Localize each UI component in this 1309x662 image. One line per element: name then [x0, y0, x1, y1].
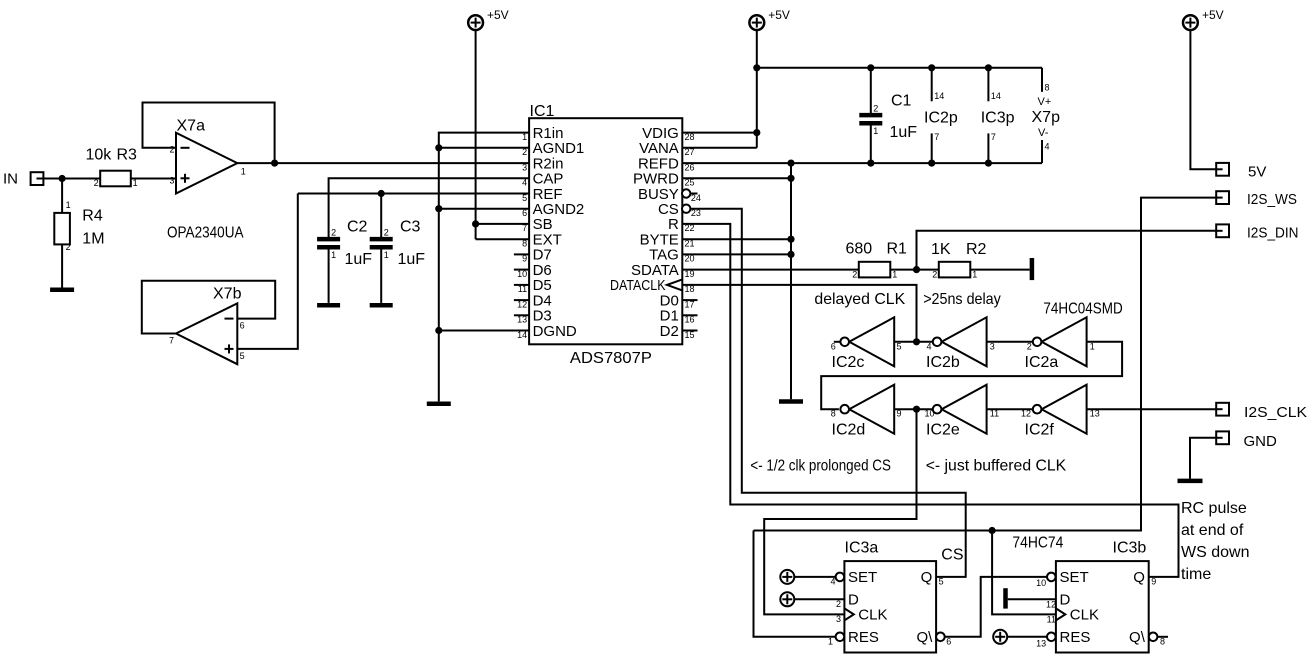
- svg-text:1: 1: [1090, 341, 1095, 351]
- svg-text:GND: GND: [1244, 433, 1278, 450]
- svg-text:+5V: +5V: [768, 8, 790, 22]
- svg-text:10: 10: [925, 409, 935, 419]
- svg-text:10k: 10k: [86, 146, 113, 163]
- svg-text:C3: C3: [400, 219, 421, 236]
- svg-text:>25ns delay: >25ns delay: [923, 291, 1001, 308]
- svg-text:8: 8: [522, 239, 527, 249]
- svg-text:8: 8: [1045, 83, 1050, 93]
- svg-text:V+: V+: [1038, 96, 1052, 108]
- svg-text:time: time: [1181, 566, 1211, 583]
- svg-text:13: 13: [1090, 409, 1100, 419]
- svg-text:4: 4: [830, 576, 835, 586]
- svg-text:+5V: +5V: [1202, 8, 1224, 22]
- svg-text:DGND: DGND: [533, 323, 577, 340]
- svg-text:3: 3: [990, 341, 995, 351]
- svg-text:11: 11: [990, 409, 999, 419]
- svg-text:IC2d: IC2d: [832, 422, 866, 439]
- svg-text:5: 5: [939, 576, 944, 586]
- svg-text:X7a: X7a: [177, 117, 206, 134]
- svg-text:1: 1: [892, 269, 897, 279]
- svg-text:2: 2: [522, 147, 527, 157]
- svg-text:Q\: Q\: [1129, 629, 1146, 646]
- svg-text:X7p: X7p: [1032, 109, 1061, 126]
- svg-text:1: 1: [66, 200, 71, 210]
- svg-text:+5V: +5V: [487, 8, 509, 22]
- svg-text:14: 14: [517, 330, 527, 340]
- svg-text:4: 4: [522, 178, 527, 188]
- svg-text:I2S_DIN: I2S_DIN: [1247, 224, 1299, 241]
- svg-text:28: 28: [685, 132, 695, 142]
- svg-text:18: 18: [685, 284, 695, 294]
- svg-text:1: 1: [873, 126, 878, 136]
- svg-text:SET: SET: [848, 569, 877, 586]
- svg-text:IC3p: IC3p: [981, 110, 1015, 127]
- svg-text:RC pulse: RC pulse: [1181, 500, 1247, 517]
- svg-text:74HC04SMD: 74HC04SMD: [1043, 301, 1122, 318]
- svg-text:7: 7: [934, 132, 939, 142]
- svg-text:4: 4: [1045, 142, 1050, 152]
- svg-text:23: 23: [691, 208, 701, 218]
- svg-text:SET: SET: [1060, 569, 1089, 586]
- svg-text:IC2b: IC2b: [926, 354, 960, 371]
- svg-text:8: 8: [1160, 636, 1165, 646]
- svg-text:<- just buffered CLK: <- just buffered CLK: [926, 457, 1067, 474]
- svg-text:RES: RES: [848, 629, 879, 646]
- svg-text:V-: V-: [1038, 127, 1049, 139]
- svg-text:CS: CS: [941, 547, 963, 564]
- svg-text:27: 27: [685, 147, 695, 157]
- svg-text:9: 9: [1151, 576, 1156, 586]
- svg-text:R2: R2: [966, 241, 987, 258]
- svg-text:2: 2: [384, 228, 389, 238]
- svg-text:R1: R1: [887, 241, 908, 258]
- svg-text:5: 5: [897, 341, 902, 351]
- svg-text:680: 680: [846, 241, 873, 258]
- svg-text:Q: Q: [921, 569, 933, 586]
- svg-text:3: 3: [522, 162, 527, 172]
- svg-text:5: 5: [522, 193, 527, 203]
- svg-text:2: 2: [932, 269, 937, 279]
- svg-text:IC3b: IC3b: [1113, 540, 1147, 557]
- svg-text:5V: 5V: [1248, 164, 1266, 181]
- svg-text:I2S_CLK: I2S_CLK: [1244, 404, 1307, 421]
- svg-text:WS down: WS down: [1181, 544, 1249, 561]
- svg-text:14: 14: [934, 91, 944, 101]
- svg-text:2: 2: [169, 145, 174, 155]
- svg-text:2: 2: [331, 228, 336, 238]
- svg-text:C2: C2: [347, 219, 368, 236]
- svg-text:1: 1: [331, 250, 336, 260]
- svg-text:2: 2: [94, 178, 99, 188]
- svg-text:delayed CLK: delayed CLK: [814, 291, 905, 308]
- svg-text:2: 2: [1027, 341, 1032, 351]
- svg-text:10: 10: [1036, 578, 1046, 588]
- svg-text:11: 11: [1047, 615, 1056, 625]
- svg-text:<- 1/2 clk prolonged CS: <- 1/2 clk prolonged CS: [750, 457, 891, 474]
- svg-text:1: 1: [133, 178, 138, 188]
- svg-text:I2S_WS: I2S_WS: [1247, 191, 1297, 208]
- svg-text:13: 13: [1036, 639, 1046, 649]
- svg-text:1M: 1M: [82, 230, 104, 247]
- svg-text:D2: D2: [660, 323, 679, 340]
- svg-text:26: 26: [685, 162, 695, 172]
- svg-text:2: 2: [852, 269, 857, 279]
- svg-text:Q\: Q\: [916, 629, 933, 646]
- svg-text:22: 22: [685, 223, 695, 233]
- svg-text:12: 12: [1046, 600, 1056, 610]
- svg-text:1uF: 1uF: [398, 251, 426, 268]
- svg-text:19: 19: [685, 269, 695, 279]
- svg-text:OPA2340UA: OPA2340UA: [167, 225, 244, 242]
- svg-text:6: 6: [522, 208, 527, 218]
- svg-text:IC3a: IC3a: [845, 540, 879, 557]
- svg-text:8: 8: [831, 409, 836, 419]
- svg-text:at end of: at end of: [1181, 522, 1244, 539]
- svg-text:IC2f: IC2f: [1025, 422, 1055, 439]
- svg-text:20: 20: [685, 254, 695, 264]
- svg-text:Q: Q: [1133, 569, 1145, 586]
- svg-text:21: 21: [685, 239, 695, 249]
- svg-text:7: 7: [522, 223, 527, 233]
- svg-text:IC2a: IC2a: [1025, 354, 1059, 371]
- svg-text:5: 5: [240, 351, 245, 361]
- svg-text:2: 2: [66, 242, 71, 252]
- svg-text:1: 1: [972, 269, 977, 279]
- svg-text:1uF: 1uF: [345, 251, 373, 268]
- svg-text:ADS7807P: ADS7807P: [570, 350, 652, 367]
- svg-text:6: 6: [831, 341, 836, 351]
- svg-text:IC2c: IC2c: [832, 354, 865, 371]
- svg-text:IC2p: IC2p: [924, 110, 958, 127]
- svg-text:74HC74: 74HC74: [1012, 535, 1063, 552]
- svg-text:24: 24: [691, 193, 701, 203]
- svg-text:C1: C1: [891, 92, 912, 109]
- svg-text:25: 25: [685, 178, 695, 188]
- svg-text:DATACLK: DATACLK: [610, 277, 666, 294]
- svg-text:IC1: IC1: [530, 103, 555, 120]
- svg-text:7: 7: [169, 336, 174, 346]
- svg-text:1: 1: [241, 166, 246, 176]
- svg-text:1K: 1K: [931, 241, 951, 258]
- svg-text:IN: IN: [3, 171, 18, 188]
- svg-text:1: 1: [828, 636, 833, 646]
- svg-text:4: 4: [927, 341, 932, 351]
- svg-text:CLK: CLK: [1070, 607, 1099, 624]
- svg-text:RES: RES: [1060, 629, 1091, 646]
- svg-text:14: 14: [991, 91, 1001, 101]
- svg-text:6: 6: [240, 320, 245, 330]
- svg-text:9: 9: [897, 409, 902, 419]
- svg-text:X7b: X7b: [213, 286, 242, 303]
- svg-text:3: 3: [836, 614, 841, 624]
- svg-text:CLK: CLK: [858, 607, 887, 624]
- svg-text:1: 1: [384, 250, 389, 260]
- svg-text:3: 3: [169, 175, 174, 185]
- svg-text:2: 2: [836, 599, 841, 609]
- svg-text:1uF: 1uF: [890, 124, 918, 141]
- svg-text:R4: R4: [82, 208, 103, 225]
- svg-text:7: 7: [991, 132, 996, 142]
- svg-text:2: 2: [873, 104, 878, 114]
- svg-text:IC2e: IC2e: [926, 422, 960, 439]
- svg-text:1: 1: [522, 132, 527, 142]
- svg-text:6: 6: [946, 636, 951, 646]
- svg-text:12: 12: [1021, 409, 1031, 419]
- svg-text:R3: R3: [117, 146, 138, 163]
